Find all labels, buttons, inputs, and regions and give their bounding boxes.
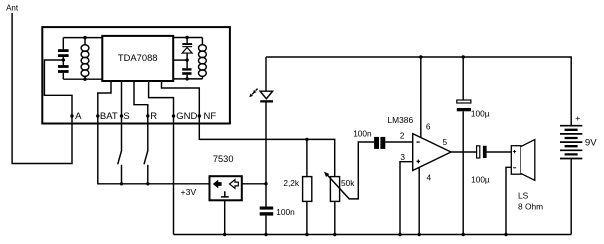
wire C5 to op-amp pin 2 bbox=[385, 141, 412, 143]
svg-text:3: 3 bbox=[400, 152, 405, 162]
LED emission arrows bbox=[256, 89, 258, 91]
svg-text:9V: 9V bbox=[585, 137, 597, 148]
node junction pin6 on top rail bbox=[419, 55, 422, 58]
capacitor C3 (right tank) bbox=[186, 60, 188, 79]
wire left tank top bbox=[63, 37, 102, 39]
wire right tank top bbox=[173, 37, 202, 39]
node junction C6 on top rail bbox=[462, 55, 465, 58]
node junction right tank top bbox=[185, 36, 188, 39]
node junction speaker gnd bbox=[504, 233, 507, 236]
svg-text:TDA7088: TDA7088 bbox=[118, 52, 158, 63]
battery BT1 9V bbox=[560, 126, 582, 159]
wire pin 6 to top rail bbox=[420, 57, 422, 138]
capacitor C4 100n (supply) bbox=[260, 207, 274, 210]
IC TDA7088 inner box bbox=[102, 36, 173, 81]
svg-text:2,2k: 2,2k bbox=[283, 178, 300, 188]
resistor R1 2,2k bbox=[306, 139, 308, 234]
node junction pin3 gnd bbox=[398, 233, 401, 236]
svg-text:GND: GND bbox=[176, 111, 197, 122]
svg-text:+: + bbox=[575, 113, 580, 123]
regulator open arrow (input) bbox=[230, 180, 239, 189]
svg-text:A: A bbox=[75, 111, 82, 122]
wire pin 3 to ground rail bbox=[400, 162, 413, 235]
capacitor C6 100u (supply decoupling) bbox=[462, 57, 464, 235]
inductor L2 (right coil) bbox=[201, 38, 203, 79]
node junction between C1 C2 bbox=[62, 58, 65, 61]
outer module box bbox=[42, 27, 230, 123]
wire GND stub from IC to ground rail bbox=[149, 81, 174, 235]
svg-text:7530: 7530 bbox=[213, 154, 234, 164]
potentiometer P1 50k bbox=[330, 177, 339, 202]
wire left tank bottom bbox=[63, 78, 102, 80]
capacitor C1 (antenna trimmer top) bbox=[58, 49, 69, 52]
wire S stub from IC down bbox=[121, 81, 123, 150]
node junction pin4 gnd bbox=[418, 233, 421, 236]
svg-text:50k: 50k bbox=[341, 178, 355, 188]
svg-text:LM386: LM386 bbox=[388, 115, 414, 125]
svg-text:S: S bbox=[123, 111, 129, 122]
wire C7 to speaker bbox=[487, 151, 512, 153]
wire speaker return to ground rail bbox=[506, 167, 511, 234]
speaker LS bbox=[511, 146, 521, 175]
svg-text:100n: 100n bbox=[353, 128, 372, 138]
node junction 9V line on ground rail bbox=[264, 233, 267, 236]
op-amp plus sign bbox=[417, 160, 421, 164]
capacitor C5 100n (coupling) bbox=[374, 137, 379, 149]
wire NF stub from IC, down and right to audio line, to volume pot bbox=[162, 81, 335, 176]
terminal S bbox=[120, 114, 123, 117]
node junction 7530 out / 9V line bbox=[264, 182, 267, 185]
capacitor C2 (antenna trimmer bottom) bbox=[58, 65, 69, 68]
varicap diode D1 bbox=[186, 38, 188, 61]
svg-text:LS: LS bbox=[518, 191, 529, 201]
speaker plus mark bbox=[513, 150, 516, 153]
inductor L1 (left coil) bbox=[84, 38, 86, 80]
svg-text:100n: 100n bbox=[276, 207, 295, 217]
terminal R bbox=[146, 114, 149, 117]
wire pin 4 to ground rail bbox=[418, 167, 420, 235]
LED D2 bbox=[260, 91, 273, 99]
wire antenna from Ant down, right, up to terminal A bbox=[12, 13, 72, 164]
terminal GND bbox=[172, 114, 175, 117]
wire right tank bottom bbox=[173, 78, 202, 80]
svg-text:100µ: 100µ bbox=[471, 108, 490, 118]
wire 7530 output right to 9V line bbox=[242, 183, 266, 185]
switch R (reset) bbox=[144, 150, 148, 164]
svg-text:4: 4 bbox=[427, 172, 432, 182]
capacitor C7 100u (output coupling) bbox=[477, 146, 480, 158]
node junction left tank top bbox=[83, 36, 86, 39]
node junction switch R on +3V rail bbox=[146, 182, 149, 185]
svg-text:5: 5 bbox=[443, 137, 448, 147]
terminal NF bbox=[198, 114, 201, 117]
terminal A bbox=[70, 114, 73, 117]
svg-text:2: 2 bbox=[400, 131, 405, 141]
op-amp minus sign bbox=[416, 141, 419, 143]
regulator internal ground symbol bbox=[221, 191, 229, 197]
wire BAT stub from IC to +3V rail bbox=[98, 81, 210, 184]
node junction 7530 gnd on rail bbox=[223, 233, 226, 236]
wire left cap branch bbox=[62, 38, 64, 80]
wire tap from IC to varicap node bbox=[173, 59, 187, 61]
potentiometer wiper arrow bbox=[327, 142, 374, 199]
svg-text:Ant: Ant bbox=[6, 3, 19, 12]
node junction C6 on ground rail bbox=[462, 233, 465, 236]
svg-text:8 Ohm: 8 Ohm bbox=[518, 202, 543, 212]
wire 7530 ground to rail bbox=[224, 200, 226, 234]
wire op-amp output bbox=[451, 151, 476, 153]
node junction right tank bottom bbox=[185, 77, 188, 80]
wire 9V vertical with LED bbox=[265, 57, 267, 235]
node junction left tank bottom bbox=[83, 78, 86, 81]
svg-text:100µ: 100µ bbox=[471, 175, 490, 185]
node junction varicap-cap tap bbox=[185, 58, 188, 61]
regulator U2 7530 box bbox=[210, 176, 242, 200]
switch S (scan) bbox=[118, 150, 122, 164]
svg-text:BAT: BAT bbox=[100, 111, 118, 122]
wire ground rail bbox=[174, 234, 572, 236]
svg-text:NF: NF bbox=[204, 111, 217, 122]
wire R stub from IC down bbox=[134, 81, 148, 150]
wire top 9V rail bbox=[266, 57, 571, 126]
node junction R1 top on NF line bbox=[305, 138, 308, 141]
terminal BAT bbox=[96, 114, 99, 117]
node junction R1 bottom on rail bbox=[305, 233, 308, 236]
node junction P1 bottom on rail bbox=[333, 233, 336, 236]
speaker minus mark bbox=[513, 167, 516, 169]
svg-text:6: 6 bbox=[426, 122, 431, 132]
wire tap between C1/C2 to terminal A bbox=[44, 60, 72, 116]
regulator filled arrow (output) bbox=[213, 180, 222, 189]
svg-text:+3V: +3V bbox=[181, 187, 197, 197]
node junction switch S on +3V rail bbox=[120, 182, 123, 185]
svg-text:R: R bbox=[150, 111, 157, 122]
